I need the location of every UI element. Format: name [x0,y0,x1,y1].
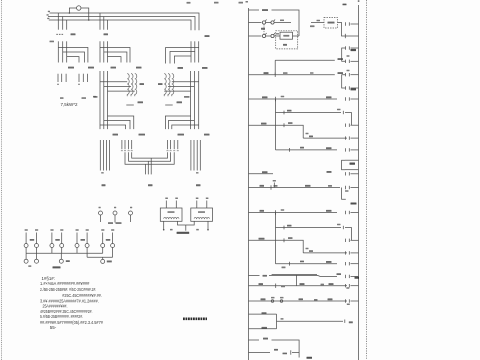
tick label [101,172,104,173]
terminal X4 [61,233,63,244]
label 1 top [246,1,249,3]
label n1 [170,229,173,231]
rung 6 wire [249,125,304,138]
1T secondary elbows [108,116,134,129]
outgoing group 4 [190,140,192,171]
terminal X1 [25,233,27,244]
label 7a [263,275,268,277]
label 8XC [329,283,334,285]
label 1g [140,83,145,85]
label 3x [283,353,288,355]
feeder group 6M elbows (mirrored) [190,41,192,62]
label 4BL [351,203,357,205]
label q2 [93,96,96,98]
label T [175,198,178,200]
label 3KM [262,171,268,173]
contact stub y61.3 [351,60,359,62]
contact stub y48 [351,47,359,49]
label XXL2 [355,277,360,279]
label 1b [287,110,292,112]
rung 7 wire [249,173,274,175]
label 7X [337,273,342,275]
label QF [82,97,87,99]
OR wire down [345,113,351,126]
branch 5b wire [303,252,347,254]
stem down x36.5 [36,248,38,254]
voltmeter PV loop [69,8,76,13]
label j1 [337,109,341,111]
label 5b [328,185,332,187]
contact stub y99 [351,98,359,100]
label 84 [351,49,357,51]
contact stub y187.5 [351,187,359,189]
rung 12 wire [249,285,348,287]
label 4F [187,2,191,4]
aux contact circles [271,300,274,303]
label n [306,133,309,135]
rung 5 wire [249,98,338,100]
label 10Ta [262,327,268,329]
terminal X6 [86,233,88,244]
label b3 [81,239,86,241]
CT coils 1g [127,74,129,95]
label 220V circuit [177,232,190,234]
stem down2 x87.1 [86,248,88,258]
2TC output stems [207,221,209,229]
stem down2 x112.6 [112,248,114,258]
label a3 [130,207,132,209]
terminal X2 [36,233,38,244]
control transformer 2TC box [191,208,213,221]
label X5 [76,229,79,231]
label 15 [148,184,153,186]
label 9X [299,298,304,300]
label 4X bottom [307,357,313,359]
label 1Mx [139,134,146,136]
fuse group FU2 [78,74,80,82]
label JP [205,35,210,37]
common drop [185,225,187,231]
label Qa [239,2,244,4]
svg-text:7,5kW*2: 7,5kW*2 [61,102,79,107]
label 4KM [260,210,265,212]
pilot stub above rung 8 [273,183,275,188]
label 55 [282,267,286,269]
perforated page edge [1,0,3,360]
label t1 [280,20,284,22]
label 1hr [138,101,144,103]
label 7g [158,83,163,85]
label tk [281,318,284,320]
label 5XB [305,185,311,187]
label 1k [102,184,106,186]
label a [60,97,64,99]
label a2 [114,207,116,209]
label KXNX [53,266,61,268]
label n2 [196,229,199,231]
label r1 [347,55,350,57]
branch wire K1 [274,60,276,74]
label 9b [280,297,284,299]
label under spares [108,222,113,224]
label b5 [309,250,313,252]
terminal bus 2 [87,256,113,258]
pushbutton SB4 [271,34,274,37]
outgoing group 3 [167,140,169,149]
OR wire down 2 [345,228,351,241]
CT coils 7g [164,74,166,95]
transformer 2T primary taps [172,81,199,83]
label 34 [351,88,357,90]
outgoing group 2 (to coupling) [121,140,123,149]
label X2 [35,229,38,231]
coupling U bends [125,152,174,164]
coupling center drops [144,164,146,174]
interlock dashed link [263,24,265,34]
label X8 [111,229,114,231]
lower terminal c1 [25,253,27,259]
contact stub y285.7 [351,285,359,287]
label 1M [111,67,117,69]
switch dash 7rq [165,104,173,106]
label d [28,265,31,267]
rail stub y24 [351,23,359,25]
label N8 [273,180,276,182]
1TC output stems [163,221,165,229]
bracket K2 [342,48,346,61]
drawing title text [183,317,207,320]
stem down x102.7 [102,248,104,254]
label b1 [30,239,35,241]
drop wire from rung 8 [342,188,346,200]
label TMb [88,67,94,69]
label b4 [106,239,111,241]
rung 2 wire [249,22,262,24]
label t2 [276,33,279,34]
terminal X5 [76,233,78,244]
label 4x [263,338,268,340]
2TC winding [194,217,210,218]
voltmeter PV [77,6,81,10]
rung 4 wire [249,74,335,76]
label L3 [47,18,49,19]
label N [50,41,55,43]
label 8a [281,286,285,288]
label 8 [317,20,321,22]
OR output wire [277,320,344,322]
feeder drop group QS2 [99,13,101,30]
lower terminal c4 [102,257,104,259]
label 4X1 [338,58,344,60]
label 1KM [262,96,268,98]
label 9a [271,297,275,299]
switch dash 1hr [126,104,134,106]
label KT [283,35,289,37]
label 5c [288,237,293,239]
label 10KM [259,238,265,240]
terminal X3 [51,233,53,244]
terminal X7 [102,233,104,244]
label 8b [321,284,325,286]
rung 10 wire [249,240,304,253]
label KA [328,22,335,24]
contact stub y138.1 [351,137,359,139]
label X1 [25,229,28,231]
feeder group 1M elbows [99,41,101,62]
contact stub y74.7 [351,74,359,76]
bus L3 [49,20,191,30]
rung 1 wire [249,9,260,11]
terminal bus 1 [26,252,103,254]
label 7x [274,349,278,351]
spare terminal circle a3 [129,211,133,215]
label P [347,70,350,72]
label TM [264,72,269,74]
contact stub y301 [351,300,359,302]
2T secondary elbows [165,116,190,129]
outgoing group 1 [99,140,101,171]
lower terminal c2 [36,253,38,259]
right control rail [358,5,360,360]
1TC winding [164,217,180,218]
tick label 2 [196,172,199,173]
stem down x51.9 [51,248,53,254]
bracket 44 [342,160,345,170]
label c1 [281,96,285,98]
junction dots [69,12,71,14]
wire to KA box [311,22,324,24]
feeder drop group QS1 [57,13,59,30]
label b [196,198,199,200]
wire number mark [343,4,347,6]
label L2 [47,14,49,15]
label 6a [300,261,304,263]
label 1M row [113,134,119,136]
rung 13 wire [249,300,348,302]
branch 4a wire [276,227,342,229]
label d8 [346,287,349,289]
label X4 [60,229,63,231]
drop 7 wire [296,275,298,285]
rung 15 wire [249,328,277,330]
contact stub y212.5 [351,212,359,214]
svg-text:1.#×%5A ########.##¥###: 1.#×%5A ########.##¥### [40,281,90,286]
spare terminal circle a2 [113,211,117,215]
label c2 [281,209,285,211]
stem down x77 [76,248,78,254]
feeder group TMa elbows [57,41,59,62]
transformer feeder 1T verticals [99,71,101,129]
bus L1 [50,13,200,30]
pushbutton SB2 [271,21,274,24]
pushbutton SB3 [262,34,265,37]
switch SW dash [56,33,64,35]
trunk vertical T1 [275,99,277,150]
label 2b [206,198,209,200]
label b2 [309,136,313,138]
KA dashed box [324,18,338,29]
branch 2b wire [303,137,347,139]
pushbutton SB1 [262,21,265,24]
contact stub y240.3 [351,239,359,241]
rail stub y36 [351,35,359,37]
label b2 [55,239,60,241]
label u5 [310,72,314,74]
label 9c [314,299,318,301]
label 9XC [328,298,333,300]
label 2a [288,122,293,124]
label 8T [259,283,264,285]
label 7rq [177,101,183,103]
label 2KM [261,123,267,125]
contact stub y125.2 [351,124,359,126]
rung 8 wire [249,187,341,189]
label 10T [262,312,267,314]
fuse group FU1 [57,74,59,82]
svg-text:5.#/5B-25B######. ####2#.: 5.#/5B-25B######. ####2#. [40,314,83,319]
fold mark dotted line [366,0,368,360]
label 9T [261,298,266,300]
contact stub y276.4 [351,275,359,277]
branch 3 wire [276,149,338,151]
transformer 1T primary taps [100,81,127,83]
label 3a [300,147,304,149]
spare terminal circle a1 [99,211,103,215]
terminal X8 [112,233,114,244]
label PK [310,25,315,27]
label Ta2 [214,2,219,4]
contact stub y88 [351,87,359,89]
label 2TC [198,211,205,213]
label 1ca [202,67,208,69]
stem down x26.1 [25,248,27,254]
label X7 [101,229,104,231]
label 4X2 [338,72,344,74]
bus L2 [48,17,195,31]
label 3Xa [326,96,332,98]
timer KT box [280,32,293,39]
label a1 [99,207,101,209]
label 5X [326,210,332,212]
lower terminal c3 [60,253,62,259]
label 4a [287,225,292,227]
svg-text:2./5B-25B-25B#8#. #/5C-25C##¥#: 2./5B-25B-25B#8#. #/5C-25C##¥#.2#. [40,287,96,292]
label 2M [136,67,142,69]
trunk vertical T2 [275,213,277,264]
rung 3 wire [249,35,262,37]
label XL [349,321,353,323]
label TMa [68,67,74,69]
bracket K3 [342,75,346,88]
label G [165,198,168,200]
label N2 [94,96,98,98]
label 2M row [204,134,210,136]
transformer feeder 2T verticals [190,71,192,129]
contact stub y173.8 [351,173,359,175]
svg-text:#25C.45C######¥#.##.: #25C.45C######¥#.##. [62,293,102,298]
label 1d [66,260,70,262]
contact stub y149.9 [351,149,359,151]
timer dashed enclosure [276,31,298,49]
label X6 [86,229,89,231]
label HMx [178,134,185,136]
svg-text:55-: 55- [50,325,57,330]
rung 14 wire [249,313,277,315]
label 1F [104,33,109,35]
label XW [327,171,332,173]
label 5a [274,185,278,187]
label 1TC [168,211,175,213]
label 44 [350,163,356,165]
label T [283,44,287,46]
contact stub y263.7 [351,263,359,265]
rung 16 wire [249,339,260,341]
label 6M [178,67,184,69]
label X3 [50,229,53,231]
OR bracket [276,314,278,329]
label KM1 [262,9,268,11]
label 8XB [300,283,305,285]
label L1 [48,11,50,12]
label Trd [184,96,190,98]
rung 9 wire [249,212,338,214]
label 8P [196,184,201,186]
contact stub y252.9 [351,252,359,254]
stem down x61.7 [61,248,63,254]
label 4B [261,28,265,30]
rung 17 wire [249,352,271,354]
label j2 [337,224,341,226]
branch 1b wire [276,112,342,114]
label r4 [347,304,350,306]
label 6X [326,261,332,263]
label gab [107,261,112,263]
label d3 [345,190,349,192]
label SW [71,33,76,35]
control transformer 1TC box [160,208,182,221]
label 5T [260,185,265,187]
branch 6 wire [276,263,338,265]
label n2 [306,248,309,250]
rung 11 wire [249,274,260,276]
label u4 [283,72,288,74]
label 3X [326,147,332,149]
rail top tick [358,0,360,2]
left control rail [248,8,250,360]
